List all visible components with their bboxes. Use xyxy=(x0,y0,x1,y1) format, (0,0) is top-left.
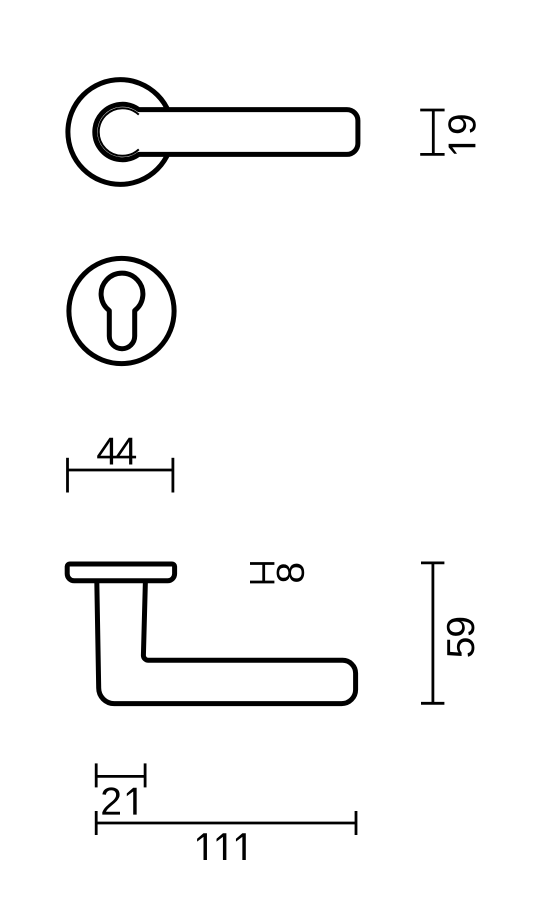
euro profile cylinder keyhole xyxy=(101,273,143,349)
dimension 44 right tick xyxy=(171,458,174,493)
dimension 21 right tick xyxy=(144,763,147,787)
dimension text 111 xyxy=(197,833,246,860)
dimension text 21 xyxy=(102,787,136,814)
lever handle profile (side view) xyxy=(97,581,356,704)
dimension 44 line xyxy=(68,469,173,472)
dimension 8 vertical line xyxy=(262,564,265,583)
dimension 111 left tick xyxy=(95,811,98,835)
dimension 111 line xyxy=(96,822,356,825)
dimension text 59 xyxy=(447,618,475,657)
dimension 59 top tick xyxy=(421,562,444,565)
dimension 59 bottom tick xyxy=(421,702,444,705)
dimension 19 bottom tick xyxy=(420,153,444,156)
dimension 8 bottom tick xyxy=(250,581,274,584)
dimension 19 top tick xyxy=(420,109,444,112)
rose plate (side view) xyxy=(67,564,174,581)
dimension text 44 xyxy=(97,438,136,465)
rose inner contour thin arc xyxy=(99,108,139,156)
dimension 21 line xyxy=(96,775,145,778)
dimension 44 left tick xyxy=(66,458,69,493)
dimension text 8 xyxy=(277,564,305,582)
escutcheon circle (key rosette) xyxy=(69,258,174,363)
dimension 111 right tick xyxy=(355,811,358,835)
lever handle silhouette (front view) xyxy=(95,104,358,159)
dimension 59 vertical line xyxy=(431,563,434,703)
dimension 21 left tick xyxy=(95,763,98,787)
rose circle R1 (front view) xyxy=(68,80,173,185)
dimension text 19 xyxy=(448,115,476,154)
dimension 19 vertical line xyxy=(432,110,435,154)
dimension 8 top tick xyxy=(250,562,274,565)
